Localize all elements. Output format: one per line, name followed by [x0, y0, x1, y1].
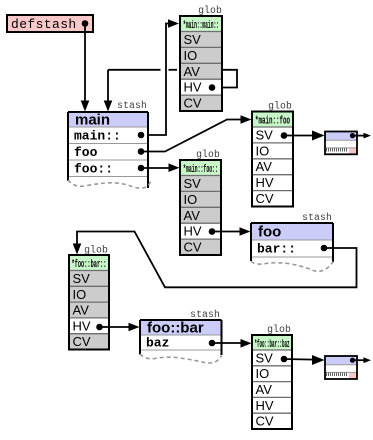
- svg-text:HV: HV: [256, 175, 274, 190]
- wire glob5 SV to sv2: [284, 355, 325, 365]
- svg-text:main: main: [75, 112, 110, 129]
- svg-text:IO: IO: [256, 143, 270, 158]
- svg-text:foo::bar: foo::bar: [147, 320, 204, 337]
- svg-text:SV: SV: [256, 350, 274, 365]
- svg-text:stash: stash: [190, 309, 220, 320]
- svg-text:main::: main::: [74, 129, 121, 144]
- svg-text:stash: stash: [117, 100, 147, 111]
- svg-text:*main::main::: *main::main::: [183, 20, 219, 32]
- wire glob4 HV to foo::bar stash: [100, 323, 140, 332]
- svg-text:IO: IO: [184, 48, 198, 63]
- wire baz entry to glob5: [212, 339, 252, 348]
- svg-text:AV: AV: [256, 159, 273, 174]
- svg-text:SV: SV: [184, 176, 202, 191]
- svg-text:foo: foo: [258, 224, 281, 241]
- svg-text:*foo::bar::: *foo::bar::: [72, 259, 107, 271]
- svg-text:AV: AV: [73, 303, 90, 318]
- svg-text:glob: glob: [267, 324, 291, 335]
- glob *foo::bar::baz (glob5): [252, 324, 292, 429]
- svg-text:baz: baz: [146, 336, 169, 351]
- sv box 1: [325, 132, 357, 155]
- svg-text:CV: CV: [184, 240, 202, 255]
- glob *main::foo:: (glob3): [180, 149, 221, 255]
- svg-text:SV: SV: [184, 32, 202, 47]
- svg-text:SV: SV: [73, 271, 91, 286]
- wire sv1 out: [353, 133, 372, 139]
- wire defstash to main stash: [81, 24, 90, 112]
- wire glob3 HV to foo stash: [212, 227, 251, 236]
- stash foo: [251, 212, 333, 271]
- glob *main::main:: (glob1): [180, 5, 222, 111]
- svg-text:foo: foo: [74, 145, 98, 160]
- svg-text:HV: HV: [256, 398, 274, 413]
- stash main: [68, 100, 151, 188]
- wire foo entry to glob2: [141, 115, 252, 151]
- svg-text:CV: CV: [73, 334, 91, 349]
- svg-text:*main::foo::: *main::foo::: [183, 164, 218, 176]
- svg-text:HV: HV: [73, 318, 91, 333]
- svg-text:foo::: foo::: [74, 162, 113, 177]
- svg-text:CV: CV: [256, 414, 274, 429]
- wire foo:: entry to glob3: [141, 163, 180, 172]
- svg-text:CV: CV: [184, 96, 202, 111]
- svg-text:glob: glob: [196, 149, 220, 160]
- svg-text:defstash: defstash: [11, 17, 77, 32]
- svg-text:HV: HV: [184, 80, 202, 95]
- svg-text:*main::foo: *main::foo: [255, 116, 290, 128]
- svg-text:glob: glob: [84, 245, 108, 256]
- svg-text:glob: glob: [268, 101, 292, 112]
- wire glob1 HV loop back to main stash (horizontal with crossing gap): [104, 70, 237, 112]
- svg-text:AV: AV: [184, 208, 201, 223]
- svg-text:IO: IO: [256, 366, 270, 381]
- svg-text:CV: CV: [256, 191, 274, 206]
- svg-text:SV: SV: [256, 127, 274, 142]
- svg-text:glob: glob: [198, 5, 222, 16]
- svg-text:IO: IO: [73, 287, 87, 302]
- svg-text:AV: AV: [256, 382, 273, 397]
- svg-text:bar::: bar::: [257, 242, 296, 257]
- box defstash: [7, 15, 93, 32]
- wire glob2 SV to sv1: [284, 131, 325, 141]
- stash foo::bar: [140, 309, 222, 363]
- svg-text:*foo::bar::baz: *foo::bar::baz: [255, 339, 290, 351]
- glob *foo::bar:: (glob4): [69, 245, 109, 350]
- wire bar:: entry to glob4: [73, 232, 357, 288]
- sv box 2: [325, 356, 357, 379]
- wire main:: entry to glob1: [141, 19, 179, 135]
- svg-text:HV: HV: [184, 224, 202, 239]
- svg-text:IO: IO: [184, 192, 198, 207]
- wire sv2 out: [353, 357, 372, 363]
- glob *main::foo (glob2): [252, 101, 293, 207]
- svg-text:AV: AV: [184, 64, 201, 79]
- svg-text:stash: stash: [302, 212, 332, 223]
